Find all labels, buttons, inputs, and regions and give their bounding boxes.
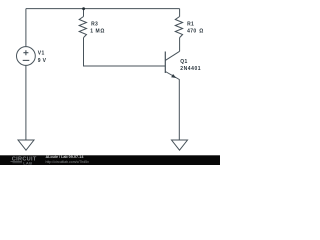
svg-text:LAB: LAB [23, 160, 32, 165]
transistor Q1 bar [164, 52, 166, 74]
label Q1 [180, 59, 201, 72]
label V1 [38, 51, 47, 65]
resistor R3 [79, 17, 86, 38]
svg-text:Q1: Q1 [180, 59, 187, 65]
label R3 [90, 22, 105, 35]
wire V1 top lead [25, 9, 27, 47]
svg-text:V1: V1 [38, 51, 45, 57]
svg-text:9 V: 9 V [38, 58, 47, 64]
svg-text:R1: R1 [187, 22, 194, 28]
wire R3 bottom lead to base [84, 38, 166, 66]
CircuitLab logo [11, 156, 37, 165]
label R1 [187, 22, 204, 35]
svg-text:2N4401: 2N4401 [180, 66, 201, 72]
svg-text:R3: R3 [91, 22, 98, 28]
resistor R1 [175, 17, 182, 38]
transistor Q1 collector lead [165, 51, 179, 60]
transistor Q1 emitter lead [165, 72, 179, 141]
node junction dot [82, 7, 85, 10]
svg-text:470 Ω: 470 Ω [187, 28, 204, 34]
wire V1 bottom lead [25, 65, 27, 140]
svg-text:ALouie / Lab 09-07-14: ALouie / Lab 09-07-14 [46, 155, 85, 159]
voltage source V1 [17, 47, 36, 66]
svg-text:1 MΩ: 1 MΩ [90, 28, 105, 34]
wire R1 top lead [179, 9, 181, 17]
svg-text:http://circuitlab.com/c/7hd5v: http://circuitlab.com/c/7hd5v [46, 160, 90, 164]
wire top rail [26, 8, 180, 10]
wire R1 bottom lead [179, 38, 181, 52]
footer bar [0, 155, 220, 165]
wire R3 top lead [83, 9, 85, 17]
ground (left) [18, 140, 34, 150]
ground (right) [172, 140, 188, 150]
transistor Q1 emitter arrowhead [171, 74, 176, 78]
